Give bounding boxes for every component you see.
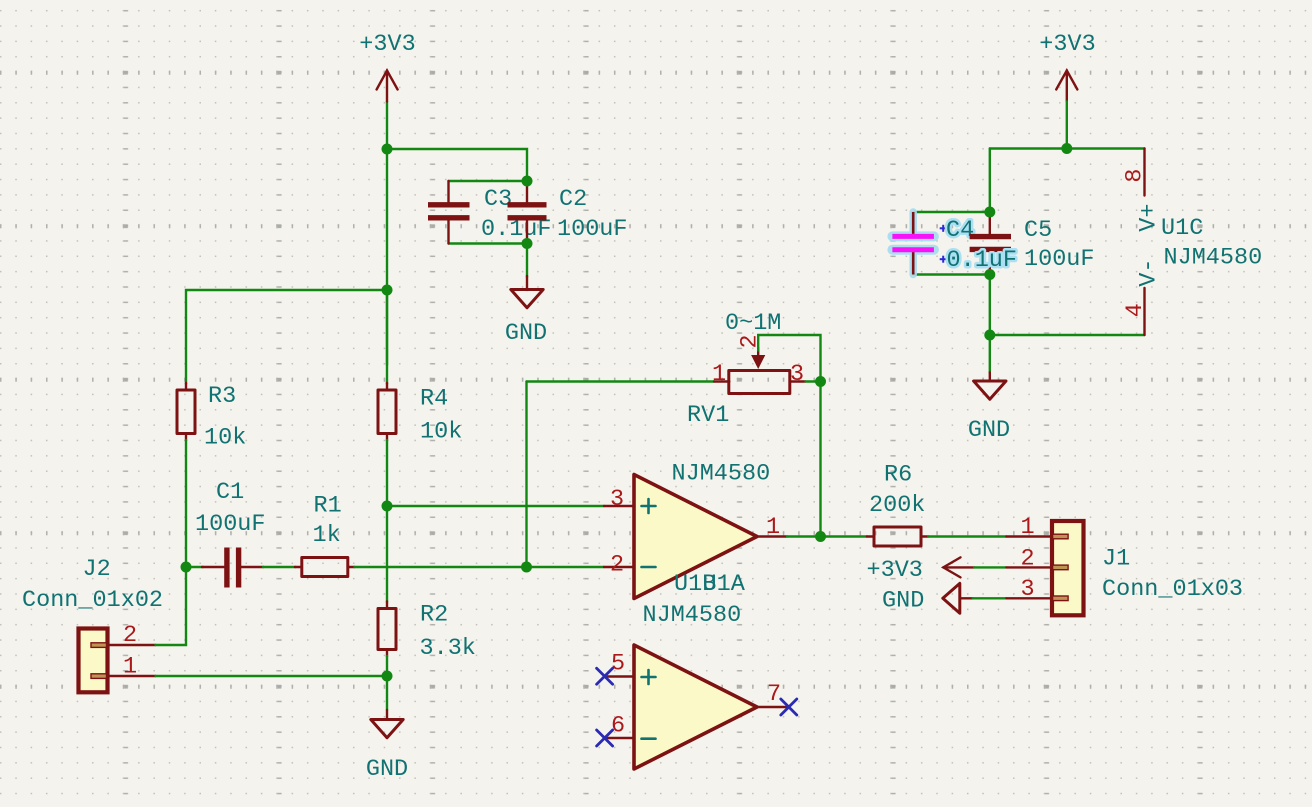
svg-text:5: 5: [611, 651, 625, 678]
svg-text:NJM4580: NJM4580: [643, 602, 742, 629]
svg-text:GND: GND: [968, 417, 1010, 444]
svg-text:100uF: 100uF: [557, 216, 628, 243]
capacitor C5: [970, 212, 1011, 275]
ground symbol GND (right): [968, 373, 1010, 445]
capacitor C4 (selected/highlighted): [892, 212, 934, 275]
C4 selection anchor cross (value): [940, 256, 947, 263]
wire: C3 branch top: [449, 180, 528, 182]
junction at C1/R3/J2 node: [181, 562, 192, 573]
svg-text:V-: V-: [1136, 258, 1163, 286]
wire: top rail to C2/C3 branch: [387, 149, 527, 181]
svg-text:GND: GND: [366, 756, 408, 783]
svg-text:Conn_01x03: Conn_01x03: [1102, 576, 1243, 603]
wire: C3 branch bottom: [449, 242, 528, 244]
svg-text:+3V3: +3V3: [867, 557, 923, 584]
svg-text:200k: 200k: [869, 492, 925, 519]
capacitor C2: [508, 181, 547, 244]
svg-text:1: 1: [1021, 514, 1035, 541]
svg-text:GND: GND: [882, 588, 924, 615]
svg-text:R2: R2: [420, 602, 448, 629]
svg-text:C5: C5: [1024, 217, 1052, 244]
svg-text:Conn_01x02: Conn_01x02: [22, 587, 163, 614]
svg-text:3: 3: [610, 486, 624, 513]
junction at R4/R2 divider node: [382, 501, 393, 512]
wire: R6 to J1 pin 1: [928, 535, 1006, 537]
svg-text:10k: 10k: [204, 425, 246, 452]
svg-text:3.3k: 3.3k: [420, 635, 476, 662]
junction at C4/C5 top node: [984, 207, 995, 218]
wire: C4 top branch: [914, 211, 990, 213]
svg-text:1: 1: [766, 514, 780, 541]
wire: C1 left lead wire: [186, 566, 203, 568]
svg-text:J2: J2: [83, 556, 111, 583]
svg-text:+3V3: +3V3: [359, 31, 415, 58]
svg-text:R6: R6: [884, 462, 912, 489]
svg-text:V+: V+: [1136, 203, 1163, 231]
wire: feedback vertical from pin2 node to RV1: [525, 382, 527, 568]
svg-text:3: 3: [790, 361, 804, 388]
junction at +3V3 left rail: [382, 144, 393, 155]
wire: rail down to C4/C5 node: [989, 149, 991, 213]
wire: R1 output to U1A pin 2: [355, 566, 605, 568]
svg-text:U1A: U1A: [703, 571, 746, 598]
svg-text:1: 1: [123, 654, 137, 681]
svg-text:3: 3: [1021, 576, 1035, 603]
junction at C2 bottom node: [522, 238, 533, 249]
wire: J2 pin 2 up to C1 node: [156, 567, 187, 645]
svg-text:C4: C4: [946, 217, 974, 244]
wire: R2 bottom to GND node: [386, 656, 388, 676]
svg-text:R4: R4: [420, 386, 448, 413]
wire: feedback node to RV1 pin 1: [527, 380, 715, 382]
wire: J2 pin 1 to ground node: [156, 675, 388, 677]
svg-text:C2: C2: [559, 186, 587, 213]
wire: R4 bottom to pin3 node: [386, 440, 388, 506]
wire: C2 bottom to GND: [526, 244, 528, 278]
ground symbol GND (at J1 pin 3): [882, 583, 973, 614]
wire: RV1 wiper loop: [758, 335, 820, 382]
power symbol +3V3 (right): [1039, 31, 1095, 102]
svg-text:2: 2: [610, 552, 624, 579]
wire: +3V3 right vertical drop: [1066, 102, 1068, 149]
wire: +3V3 symbol to J1 pin 2: [974, 566, 1006, 568]
power symbol +3V3 (at J1 pin 2): [867, 557, 975, 584]
wire: output column down to U1A output: [819, 382, 821, 537]
svg-text:8: 8: [1122, 169, 1149, 183]
resistor R3: [177, 383, 195, 441]
svg-text:0~1M: 0~1M: [725, 310, 781, 337]
wire: ground node down: [386, 676, 388, 710]
junction at RV1 pin3/output column: [815, 376, 826, 387]
svg-text:C3: C3: [484, 186, 512, 213]
wire: GND drop: [989, 335, 991, 373]
junction at +3V3 right rail: [1061, 143, 1072, 154]
wire: branch to R3 top: [186, 290, 387, 384]
svg-text:100uF: 100uF: [1024, 246, 1095, 273]
wire: output node to R6: [821, 535, 867, 537]
junction at C4/C5 bottom node: [984, 269, 995, 280]
svg-text:6: 6: [611, 713, 625, 740]
svg-text:0.1uF: 0.1uF: [947, 247, 1018, 274]
connector J1: [1006, 521, 1083, 615]
wire: bias node to U1A pin 3: [387, 505, 604, 507]
no-connect X on pin 5: [597, 668, 613, 684]
resistor R6: [867, 527, 929, 546]
svg-text:RV1: RV1: [687, 402, 729, 429]
svg-text:R1: R1: [314, 493, 342, 520]
wire: bottom node down to GND rail: [989, 275, 991, 336]
resistor R2: [378, 602, 396, 657]
junction at R3/R4 rail split: [382, 285, 393, 296]
wire: GND symbol to J1 pin 3: [973, 597, 1007, 599]
wire: R3 bottom to C1 node: [185, 440, 187, 567]
C4 selection anchor cross (reference): [940, 225, 947, 232]
svg-text:100uF: 100uF: [195, 511, 266, 538]
no-connect X on pin 7: [781, 699, 797, 715]
svg-text:U1C: U1C: [1161, 215, 1203, 242]
wire: +3V3 left vertical drop: [386, 102, 388, 150]
wire: right bottom rail to U1C pin 4: [990, 334, 1145, 336]
svg-text:7: 7: [767, 681, 781, 708]
svg-text:10k: 10k: [420, 419, 462, 446]
junction at R2/J2 ground node: [382, 671, 393, 682]
wire: right top rail: [990, 147, 1145, 149]
no-connect X on pin 6: [597, 730, 613, 746]
wire: divider down through R2: [386, 506, 388, 602]
power symbol +3V3 (left): [359, 31, 415, 102]
svg-text:4: 4: [1122, 303, 1149, 317]
resistor R1: [295, 558, 355, 577]
wire: C1 to R1: [263, 566, 296, 568]
op-amp U1C power pins: [1143, 149, 1145, 336]
resistor R4: [378, 383, 396, 441]
junction at C2 top node: [522, 176, 533, 187]
svg-text:J1: J1: [1102, 546, 1130, 573]
op-amp U1B: [605, 645, 789, 769]
junction at output node: [815, 531, 826, 542]
svg-text:R3: R3: [208, 383, 236, 410]
svg-text:1k: 1k: [313, 522, 341, 549]
wire: main vertical bus x=387: [386, 149, 388, 384]
connector J2: [79, 629, 156, 693]
junction at GND rail: [984, 330, 995, 341]
svg-text:2: 2: [1021, 546, 1035, 573]
svg-text:2: 2: [123, 622, 137, 649]
svg-text:1: 1: [712, 361, 726, 388]
svg-text:GND: GND: [505, 320, 547, 347]
svg-text:C1: C1: [216, 479, 244, 506]
op-amp U1A: [604, 475, 787, 599]
svg-text:NJM4580: NJM4580: [672, 461, 771, 488]
ground symbol GND (bottom left): [366, 710, 408, 783]
ground symbol GND (below C2): [505, 276, 547, 347]
junction at feedback node on pin 2 wire: [521, 562, 532, 573]
potentiometer RV1: [714, 348, 806, 394]
capacitor C1: [202, 548, 264, 588]
wire: C4 bottom branch: [914, 273, 990, 275]
wire: R4 top lead wire: [386, 290, 388, 365]
wire: RV1 pin 3 to output node: [806, 380, 821, 382]
capacitor C3: [428, 181, 470, 244]
svg-text:+3V3: +3V3: [1039, 31, 1095, 58]
svg-text:NJM4580: NJM4580: [1164, 245, 1263, 272]
wire: U1A output to junction: [787, 535, 821, 537]
